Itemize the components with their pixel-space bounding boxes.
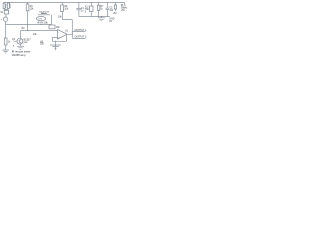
wire lower rail (52, 35, 66, 42)
op-amp U1 (58, 30, 68, 40)
wire output (67, 32, 72, 39)
resistor R5 (4, 38, 7, 45)
ground GND1 (2, 50, 9, 53)
wire collector (20, 31, 22, 39)
resistor R6 feedback (62, 2, 72, 34)
svg-text:OUTPUT 1: OUTPUT 1 (75, 29, 87, 32)
resistor R7 (98, 2, 100, 16)
capacitor C2 (106, 2, 109, 16)
wire lower right rail (79, 16, 110, 18)
svg-text:+5V: +5V (121, 10, 126, 12)
photodiode D2 (7, 3, 9, 9)
ground GND3 (50, 45, 61, 48)
svg-text:IR RX 38k: IR RX 38k (37, 23, 48, 25)
svg-text:38kHz: 38kHz (41, 13, 47, 15)
ground GND4 (98, 18, 105, 21)
junction dots (27, 24, 28, 25)
svg-text:IR rx: IR rx (121, 4, 127, 7)
wire opamp gnd drop (55, 41, 57, 50)
svg-text:LM358 amp: LM358 amp (12, 53, 26, 57)
wire plus input (52, 37, 57, 41)
wire top bus (4, 1, 125, 3)
wire left branch down (5, 25, 7, 39)
wire source to rail (5, 21, 7, 24)
wire mid rail (6, 24, 52, 26)
source V1 (3, 17, 7, 21)
module wires (41, 15, 52, 25)
transistor Q1 (17, 38, 23, 44)
wire emitter (20, 44, 22, 46)
capacitor C1 (76, 2, 81, 16)
svg-text:+5V: +5V (113, 13, 118, 15)
resistor R4 inline (49, 25, 55, 29)
sensor box X1 (4, 10, 8, 14)
resistor R3 (27, 2, 29, 30)
svg-text:OUTPUT 2: OUTPUT 2 (75, 35, 87, 38)
wire base rail (21, 30, 58, 32)
ground GND2 (17, 46, 24, 49)
svg-text:0V: 0V (109, 21, 112, 23)
regulator IC2 (90, 2, 92, 16)
receiver ellipse (36, 17, 45, 21)
module top line (38, 14, 50, 16)
resistor R8 (114, 2, 116, 11)
photodiode D1 (3, 3, 5, 9)
wire box to source (5, 14, 7, 17)
wire drops to photodiodes (4, 2, 8, 10)
svg-text:-: - (58, 31, 59, 34)
wire ground drop (101, 17, 103, 18)
svg-text:LED: LED (38, 19, 42, 21)
wire bus end drop (123, 2, 125, 4)
wire to ground (5, 45, 7, 50)
out terminal lines (72, 32, 85, 39)
